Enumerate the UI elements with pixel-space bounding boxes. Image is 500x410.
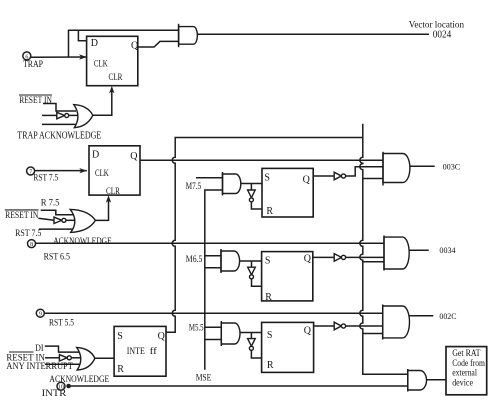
svg-text:003C: 003C xyxy=(443,161,461,171)
svg-text:external: external xyxy=(452,369,477,379)
svg-text:7: 7 xyxy=(29,169,32,175)
svg-text:0024: 0024 xyxy=(433,30,452,41)
svg-text:R: R xyxy=(266,206,273,217)
svg-text:CLR: CLR xyxy=(106,186,120,197)
svg-text:RESET IN: RESET IN xyxy=(19,95,52,105)
svg-text:Q: Q xyxy=(131,40,139,51)
svg-text:Code from: Code from xyxy=(452,358,485,369)
svg-text:ff: ff xyxy=(150,346,158,357)
svg-text:R: R xyxy=(265,292,272,303)
svg-text:D: D xyxy=(91,38,98,49)
svg-text:S: S xyxy=(267,330,273,341)
svg-text:002C: 002C xyxy=(439,311,456,321)
svg-text:CLK: CLK xyxy=(94,59,108,70)
svg-text:RESET IN: RESET IN xyxy=(5,210,39,220)
svg-text:INTE: INTE xyxy=(127,346,145,357)
svg-text:TRAP: TRAP xyxy=(23,59,43,70)
svg-text:CLR: CLR xyxy=(109,72,123,83)
svg-text:M6.5: M6.5 xyxy=(186,254,203,264)
svg-text:Q: Q xyxy=(158,331,166,342)
svg-text:Get RAT: Get RAT xyxy=(452,349,481,359)
svg-text:RST 6.5: RST 6.5 xyxy=(44,252,71,263)
svg-text:6: 6 xyxy=(25,54,28,60)
svg-text:10: 10 xyxy=(58,384,64,390)
svg-text:TRAP ACKNOWLEDGE: TRAP ACKNOWLEDGE xyxy=(17,130,101,141)
svg-text:S: S xyxy=(264,173,270,184)
svg-text:R 7.5: R 7.5 xyxy=(41,198,60,209)
svg-text:S: S xyxy=(117,331,123,342)
svg-text:Vector location: Vector location xyxy=(409,19,464,30)
svg-text:D: D xyxy=(92,150,99,161)
svg-text:RST 5.5: RST 5.5 xyxy=(49,318,74,329)
svg-text:ACKNOWLEDGE: ACKNOWLEDGE xyxy=(53,236,112,247)
svg-text:M5.5: M5.5 xyxy=(189,323,204,333)
svg-text:device: device xyxy=(452,378,473,388)
svg-text:Q: Q xyxy=(304,326,312,337)
svg-text:ANY INTERRUPT: ANY INTERRUPT xyxy=(6,361,73,372)
svg-text:Q: Q xyxy=(303,175,311,186)
svg-text:Q: Q xyxy=(304,254,312,265)
svg-text:M7.5: M7.5 xyxy=(186,181,202,191)
svg-text:8: 8 xyxy=(30,242,33,248)
svg-text:9: 9 xyxy=(39,312,42,318)
svg-text:0034: 0034 xyxy=(439,245,456,255)
svg-text:R: R xyxy=(117,364,124,375)
svg-text:MSE: MSE xyxy=(196,372,212,383)
svg-text:RST 7.5: RST 7.5 xyxy=(15,228,41,239)
svg-text:Q: Q xyxy=(130,151,138,162)
svg-text:R: R xyxy=(267,360,274,371)
svg-text:RST 7.5: RST 7.5 xyxy=(33,173,58,184)
svg-text:CLK: CLK xyxy=(95,168,109,179)
svg-text:S: S xyxy=(265,256,271,267)
